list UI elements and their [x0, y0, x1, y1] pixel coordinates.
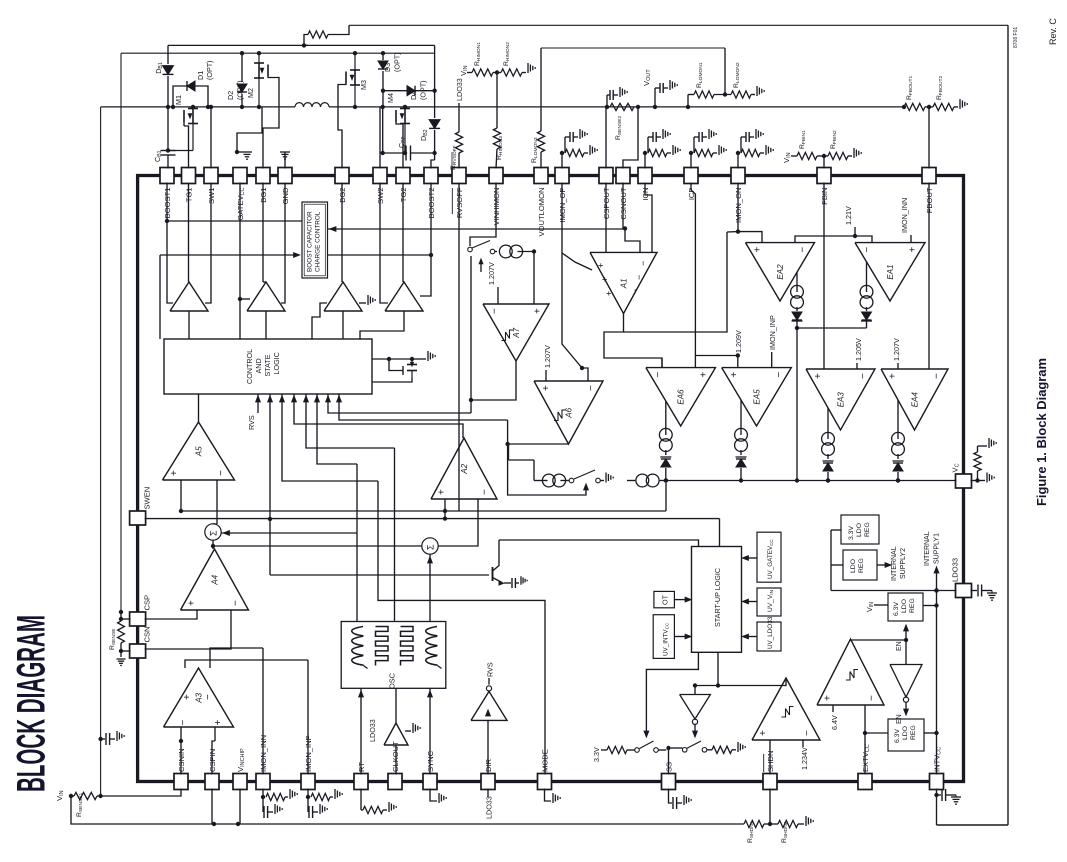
svg-text:+: + — [888, 373, 899, 379]
box START-UP LOGIC — [692, 547, 742, 653]
control box input arrows — [257, 394, 259, 413]
SHDN comparator output to inverter — [695, 678, 786, 686]
pin INTVCC — [930, 774, 944, 790]
RC IMON_ON — [737, 153, 739, 169]
svg-text:−: − — [203, 694, 214, 700]
pin CSNIN — [174, 774, 188, 790]
cap on VIN sense — [98, 737, 102, 741]
mosfet M2 — [258, 53, 260, 64]
svg-text:IMON_INN: IMON_INN — [900, 198, 909, 233]
svg-text:BOOST1: BOOST1 — [163, 188, 172, 219]
svg-text:RVSOFF: RVSOFF — [455, 187, 464, 218]
svg-text:+: + — [437, 489, 448, 495]
pin RVSOFF — [452, 168, 466, 184]
svg-text:Figure 1. Block Diagram: Figure 1. Block Diagram — [1034, 358, 1049, 506]
svg-text:IMON_OP: IMON_OP — [558, 188, 567, 223]
svg-text:GND: GND — [281, 187, 290, 204]
RC ICP — [690, 153, 692, 169]
svg-text:EA6: EA6 — [677, 389, 686, 405]
wire RSENSE1 to CSNIN — [101, 789, 181, 797]
pin VINHIMON — [489, 168, 503, 184]
svg-text:A6: A6 — [565, 407, 574, 418]
svg-text:LDO33: LDO33 — [455, 78, 464, 101]
svg-text:−: − — [862, 247, 873, 253]
A6 ref — [545, 370, 547, 381]
svg-text:REG: REG — [858, 558, 865, 573]
ground M2 source — [237, 107, 262, 152]
svg-text:IMON_INP: IMON_INP — [304, 735, 313, 772]
RVS inverter DIR — [487, 720, 489, 774]
diagonal IMON_OP to A1 — [562, 253, 592, 270]
svg-text:D4: D4 — [409, 91, 418, 100]
svg-text:LDO33: LDO33 — [368, 719, 377, 742]
svg-text:−: − — [216, 470, 227, 476]
svg-text:1.207V: 1.207V — [543, 345, 552, 368]
pin CLKOUT — [388, 774, 402, 790]
pin IMON_INP — [301, 774, 315, 790]
op-amp A5 — [163, 422, 235, 480]
box UV_VIN — [757, 588, 781, 616]
svg-text:+: + — [753, 247, 764, 253]
svg-text:1.205V: 1.205V — [854, 338, 863, 361]
svg-text:D2: D2 — [226, 91, 235, 100]
VOUT label and caps — [653, 105, 657, 109]
arrow into S1 — [221, 532, 357, 534]
gate driver BG1 — [247, 282, 285, 311]
lineA RVSOFF/A5 — [181, 510, 666, 512]
driver inputs to control logic — [188, 311, 190, 339]
A6 switch mirror row — [533, 460, 535, 472]
VC rail — [666, 480, 957, 482]
INTVCC external — [936, 789, 938, 826]
svg-text:UV_GATEVCC: UV_GATEVCC — [767, 539, 774, 579]
arrow INTERNAL SUPPLY2 — [877, 564, 888, 566]
svg-text:D3: D3 — [383, 63, 392, 72]
RSENSE2 — [605, 105, 609, 109]
CLKOUT buffer — [395, 688, 397, 723]
mosfet Q at control box right — [372, 358, 412, 360]
rail y53 GND — [121, 52, 435, 54]
IC boundary — [138, 176, 964, 782]
svg-text:TG2: TG2 — [399, 188, 408, 203]
pin FBOUT — [922, 168, 936, 184]
svg-text:3.3V: 3.3V — [592, 747, 601, 762]
svg-text:6.3V: 6.3V — [894, 729, 901, 743]
svg-text:+: + — [532, 308, 543, 314]
svg-text:LDO: LDO — [902, 726, 909, 740]
svg-text:−: − — [586, 385, 597, 391]
mosfet M3 — [354, 53, 356, 71]
svg-text:8708 F01: 8708 F01 — [1013, 27, 1019, 48]
svg-text:UV_INTVCC: UV_INTVCC — [663, 622, 670, 656]
pin wires SW1 — [210, 107, 212, 169]
divider RLOMON1/RLOMON2 — [687, 95, 689, 107]
op-amp A4 — [181, 549, 249, 610]
svg-text:CHARGE CONTROL: CHARGE CONTROL — [315, 211, 322, 272]
FBOUT to EA4 — [928, 183, 930, 370]
LDO33 line — [831, 590, 957, 592]
FBIN to EA3 — [823, 183, 825, 370]
pin SS — [662, 774, 676, 790]
pin FBIN — [817, 168, 831, 184]
svg-text:EA3: EA3 — [837, 392, 846, 408]
right loop wire to INTVCC — [1007, 25, 1009, 825]
SWEN line — [145, 518, 720, 520]
overline SHDN — [763, 754, 765, 772]
RSENSE between CSP CSN — [121, 618, 131, 620]
inductor L1 — [295, 103, 304, 107]
EA3 EA4 output mirrors — [827, 408, 829, 439]
svg-text:EA4: EA4 — [911, 392, 920, 408]
svg-text:ICN: ICN — [641, 188, 650, 201]
wire S junction to S2 — [213, 545, 422, 547]
op-amp A6 — [534, 381, 603, 444]
A7 ref 1.207V — [497, 287, 499, 304]
op-amp A3 — [164, 668, 234, 727]
gate driver BG2 — [324, 282, 362, 311]
svg-text:1.207V: 1.207V — [892, 338, 901, 361]
svg-text:BG1: BG1 — [259, 188, 268, 203]
EA1 — [855, 243, 925, 301]
EA6 EA5 output mirrors — [665, 401, 667, 435]
box OT — [654, 591, 675, 607]
EN inverter — [905, 640, 907, 665]
svg-text:LDO: LDO — [901, 599, 908, 613]
svg-text:−: − — [802, 730, 813, 736]
svg-text:A1: A1 — [620, 278, 629, 289]
FBOUT divider — [902, 105, 906, 109]
pin IMON_OP — [555, 168, 569, 184]
svg-text:OT: OT — [661, 594, 670, 605]
sum junction S1 — [205, 524, 221, 540]
current source into VC rail — [627, 480, 635, 482]
svg-text:−: − — [931, 373, 942, 379]
svg-text:IMON_INN: IMON_INN — [259, 735, 268, 772]
svg-text:+: + — [604, 291, 614, 296]
capacitor CB1 — [161, 150, 176, 152]
RC IMON_INN ext — [262, 789, 264, 798]
A6 output — [508, 443, 569, 445]
svg-text:Σ: Σ — [209, 530, 219, 536]
svg-text:EA1: EA1 — [886, 264, 895, 279]
resistor RLOMON3 — [540, 48, 542, 131]
left vertical sense wires — [120, 53, 122, 612]
wires CSPOUT/CSNOUT — [605, 107, 607, 169]
wire M4 source to CB2 line — [404, 145, 406, 153]
svg-text:+: + — [169, 470, 180, 476]
1.209V ref node — [695, 355, 737, 357]
svg-text:−: − — [490, 308, 501, 314]
svg-text:SUPPLY2: SUPPLY2 — [900, 548, 907, 579]
comparator A SHDN — [752, 678, 820, 740]
svg-text:−: − — [653, 372, 664, 378]
svg-text:+: + — [813, 373, 824, 379]
svg-text:IMON_ON: IMON_ON — [734, 188, 743, 223]
ground BG2 driver — [359, 302, 366, 304]
svg-text:+: + — [758, 730, 769, 736]
wire rail45 to DB2 leg — [434, 45, 436, 90]
diode DB2 — [429, 120, 440, 129]
svg-text:(OPT): (OPT) — [419, 80, 428, 100]
svg-text:SYNC: SYNC — [426, 750, 435, 772]
svg-text:−: − — [866, 695, 877, 701]
svg-text:−: − — [630, 289, 640, 294]
box UV_LDO33 — [757, 622, 781, 651]
gate driver TG1 — [170, 282, 208, 311]
diode D3 (OPT) — [382, 53, 384, 60]
pin IMON_INN — [256, 774, 270, 790]
wire CSNOUT rail to charge box — [328, 228, 626, 230]
capacitor CB2 — [382, 107, 384, 153]
svg-text:+: + — [186, 600, 197, 606]
svg-text:M3: M3 — [359, 80, 368, 90]
pin DIR — [481, 774, 495, 790]
svg-text:SHDN: SHDN — [766, 750, 775, 772]
SUL to SS switch arrow — [646, 652, 698, 733]
box 3.3V LDO REG — [841, 515, 879, 544]
svg-text:−: − — [479, 489, 490, 495]
VINHIMON switch and mirror — [470, 183, 496, 247]
svg-text:CSPOUT: CSPOUT — [602, 187, 611, 219]
box UV_INTVCC — [653, 615, 674, 659]
svg-text:6.4V: 6.4V — [830, 715, 839, 730]
pin SW1 — [204, 168, 218, 184]
svg-text:FBIN: FBIN — [820, 188, 829, 205]
svg-text:M2: M2 — [246, 88, 255, 98]
box CONTROL AND STATE LOGIC — [164, 339, 372, 394]
pin SWEN — [130, 511, 146, 525]
svg-text:1.21V: 1.21V — [844, 206, 853, 225]
RC IMON_INP ext — [307, 789, 309, 798]
pin TG1 — [182, 168, 196, 184]
pin ICN — [638, 168, 652, 184]
svg-text:M1: M1 — [174, 95, 183, 105]
comparator A7 — [483, 304, 549, 361]
svg-text:+: + — [182, 694, 193, 700]
svg-text:SW2: SW2 — [376, 188, 385, 204]
svg-text:A2: A2 — [460, 463, 469, 474]
pin IMON_ON — [731, 168, 745, 184]
svg-text:EN: EN — [896, 641, 903, 651]
EA5 — [722, 368, 792, 426]
A7 output — [471, 361, 516, 400]
EA5 minus IMON_INP — [771, 352, 773, 368]
resistor INTVCC feed — [304, 44, 308, 46]
box BOOST CAPACITOR CHARGE CONTROL — [302, 202, 328, 278]
op-amp A1 — [590, 252, 657, 313]
LDO33 pin external cap — [971, 590, 978, 592]
pin SYNC — [423, 774, 437, 790]
svg-text:M4: M4 — [386, 93, 395, 103]
arrow INTERNAL SUPPLY1 — [934, 588, 938, 592]
box OSC — [341, 622, 446, 689]
box 6.3V LDO REG 1 — [888, 593, 923, 621]
pin ICP — [684, 168, 698, 184]
svg-text:VINHIMON: VINHIMON — [492, 188, 501, 226]
svg-text:FBOUT: FBOUT — [925, 187, 934, 213]
EA1 plus IMON_INN — [910, 235, 912, 243]
EA2 EA1 output mirrors — [796, 272, 798, 292]
svg-text:Rev. C: Rev. C — [1048, 18, 1058, 45]
svg-text:REG: REG — [910, 725, 917, 740]
svg-text:+: + — [596, 263, 606, 268]
svg-text:+: + — [213, 720, 224, 726]
A3 lower inputs — [180, 727, 182, 775]
resistor RHIMON3 — [496, 73, 498, 129]
pin GND — [278, 168, 292, 184]
A5 inputs — [180, 480, 182, 511]
svg-text:TG1: TG1 — [185, 188, 194, 203]
box UV_GATEVCC — [757, 532, 781, 582]
svg-text:BG2: BG2 — [338, 188, 347, 203]
svg-text:REG: REG — [864, 522, 871, 537]
waveform square 2 — [401, 627, 414, 666]
svg-text:LDO: LDO — [856, 523, 863, 537]
svg-text:SWEN: SWEN — [143, 487, 152, 510]
pin SHDN — [763, 774, 777, 790]
VOUTLOMON top link — [541, 47, 725, 49]
svg-text:−: − — [797, 247, 808, 253]
EA2 — [746, 243, 815, 301]
svg-text:+: + — [698, 372, 709, 378]
svg-text:3.3V: 3.3V — [848, 526, 855, 540]
mosfet M4 — [404, 107, 406, 110]
diode D4 (OPT) — [383, 90, 435, 92]
INTVCC internal rail — [936, 591, 938, 775]
pin LDO33 — [956, 584, 972, 598]
svg-text:+: + — [908, 247, 919, 253]
pin VC — [956, 474, 972, 488]
svg-text:INTERNAL: INTERNAL — [891, 546, 898, 581]
pin CSN — [130, 644, 146, 658]
pin TG2 — [396, 168, 410, 184]
rail INTVCC top (y=25.3) — [349, 24, 1008, 26]
driver power taps — [166, 183, 168, 222]
svg-text:REG: REG — [909, 598, 916, 613]
pin VOUTLOMON — [534, 168, 548, 184]
RT input arrow — [360, 688, 362, 774]
pin CSP — [130, 612, 146, 626]
waveform sawtooth 1 — [352, 627, 364, 636]
comparator B EXTVCC — [817, 639, 884, 705]
svg-text:SUPPLY1: SUPPLY1 — [934, 533, 941, 564]
wire charge box row2 — [160, 254, 296, 256]
pin BG1 — [256, 168, 270, 184]
A1 output — [623, 314, 625, 332]
svg-text:(OPT): (OPT) — [205, 60, 214, 80]
svg-text:CSP: CSP — [143, 595, 152, 611]
svg-text:(OPT): (OPT) — [236, 80, 245, 100]
A1 inputs CSPOUT CSNOUT ICN — [605, 183, 607, 253]
pin CSNOUT — [616, 168, 630, 184]
Q1 collector line to SUL — [499, 540, 699, 547]
svg-text:STATE: STATE — [263, 354, 272, 376]
diode D2 (OPT) — [241, 53, 243, 82]
svg-text:−: − — [858, 373, 869, 379]
diode DB1 — [167, 45, 169, 64]
SHDN divider — [769, 789, 771, 825]
svg-text:1.207V: 1.207V — [487, 262, 496, 285]
svg-text:+: + — [823, 695, 834, 701]
pin CSPOUT — [599, 168, 613, 184]
wire BOOST1 to charge box — [167, 220, 302, 222]
gate driver TG2 — [385, 282, 423, 311]
rail SW/VIN y107 with inductor — [101, 106, 295, 108]
svg-text:−: − — [774, 372, 785, 378]
1.21V ref line — [795, 236, 872, 243]
pin GATEVCC — [233, 168, 247, 184]
pin SW2 — [373, 168, 387, 184]
EA2 plus from IMON_ON — [737, 183, 739, 232]
svg-text:DIR: DIR — [484, 758, 493, 772]
svg-text:D1: D1 — [196, 71, 205, 80]
waveform sawtooth 2 — [426, 627, 438, 636]
cap at CSPOUT node — [606, 95, 608, 107]
SS inverter — [694, 686, 696, 695]
svg-text:−: − — [638, 261, 648, 266]
svg-text:EA2: EA2 — [776, 264, 785, 280]
EN gate to LDO — [851, 639, 907, 640]
svg-text:RT: RT — [357, 762, 366, 772]
svg-text:OSC: OSC — [388, 672, 397, 689]
op-amp A2 — [431, 438, 497, 499]
diode D1 (OPT) — [173, 86, 208, 107]
svg-text:SW1: SW1 — [207, 188, 216, 204]
svg-text:EA5: EA5 — [753, 389, 762, 405]
VIN rail bottom — [71, 796, 744, 824]
pin VINCHIP — [233, 774, 247, 790]
svg-text:INTERNAL: INTERNAL — [924, 531, 931, 566]
rail y45 — [168, 44, 435, 46]
A4 inputs from CSP CSN — [145, 610, 197, 619]
svg-text:+: + — [600, 277, 610, 282]
svg-text:IMON_INP: IMON_INP — [768, 315, 777, 350]
svg-text:CSPIN: CSPIN — [208, 749, 217, 772]
RC IMON_OP — [561, 153, 563, 169]
svg-text:Σ: Σ — [426, 544, 436, 550]
EXTVCC wire — [864, 733, 866, 775]
driver power taps right — [380, 183, 388, 304]
svg-text:A7: A7 — [512, 327, 521, 338]
svg-text:LDO33: LDO33 — [951, 558, 960, 582]
svg-text:CONTROL: CONTROL — [245, 349, 254, 384]
S2 input from OSC — [429, 554, 431, 621]
pin BG2 — [335, 168, 349, 184]
mosfet M1 — [168, 150, 193, 152]
box 6.3V LDO REG 2 — [888, 719, 924, 751]
transistor Q1 — [270, 574, 489, 576]
svg-text:BOOST CAPACITOR: BOOST CAPACITOR — [307, 211, 314, 272]
pin CSPIN — [205, 774, 219, 790]
MODE ground — [545, 789, 552, 802]
svg-text:AND: AND — [254, 358, 263, 373]
svg-text:RVS: RVS — [486, 662, 495, 677]
svg-text:UV_LDO33: UV_LDO33 — [767, 616, 774, 649]
svg-text:START-UP LOGIC: START-UP LOGIC — [713, 568, 722, 627]
EA6 — [646, 368, 716, 426]
svg-text:−: − — [231, 600, 242, 606]
A6 minus from IMON_OP — [582, 368, 588, 381]
S2 out to A2 minus — [438, 499, 478, 546]
A3 upper inputs — [185, 660, 308, 668]
svg-text:CSNIN: CSNIN — [177, 748, 186, 772]
svg-text:SS: SS — [665, 762, 674, 772]
svg-text:LDO33: LDO33 — [485, 796, 494, 819]
EA4 — [881, 369, 948, 430]
svg-text:A4: A4 — [211, 574, 220, 585]
svg-text:LDO: LDO — [850, 559, 857, 573]
svg-text:BOOST2: BOOST2 — [427, 188, 436, 219]
